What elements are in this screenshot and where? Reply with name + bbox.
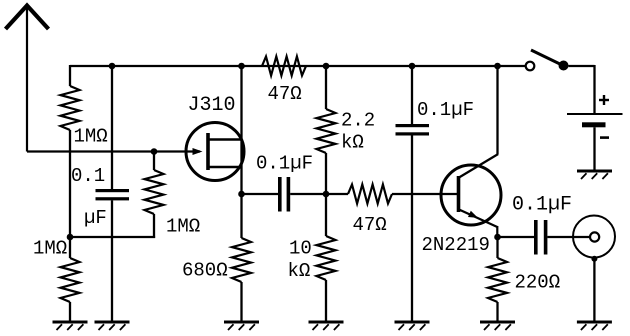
resistor R4 680 ohm [232,238,251,282]
wire R2 to ground [69,302,71,322]
resistor R9 220 ohm [488,258,507,302]
transistor Q2 2N2219 BJT [441,154,501,237]
svg-text:0.1µF: 0.1µF [417,99,474,121]
capacitor C2 0.1uF [278,177,290,212]
junction rail to collector [494,63,501,70]
node emitter junction [494,234,501,241]
svg-text:1MΩ: 1MΩ [74,126,108,148]
svg-text:220Ω: 220Ω [515,272,561,294]
wire rail to C1 [111,66,113,189]
wire top supply rail [70,65,526,67]
node connector shell junction [591,256,597,262]
wire connector shell to ground [593,259,595,322]
wire drain channel vertical [240,66,242,194]
svg-text:10: 10 [289,238,312,260]
wire rail to R5 [325,66,327,109]
ground below R6 [309,321,344,324]
wire R5 to node B [325,153,327,236]
label battery minus [600,136,609,139]
resistor R5 2.2k ohm [317,109,336,153]
wire C2 to node B [290,193,326,195]
junction rail to C1 [109,63,116,70]
ground below battery [577,170,612,173]
junction rail to drain [238,63,245,70]
svg-text:680Ω: 680Ω [182,260,228,282]
transistor Q1 J310 JFET [186,123,244,181]
wire C1 to ground [111,200,113,322]
svg-text:47Ω: 47Ω [268,83,302,105]
ground below connector [577,321,612,324]
ground below C3 [395,321,430,324]
wire R8 to base [392,193,457,195]
ground below R4 [224,321,259,324]
junction rail to R5 [323,63,330,70]
wire antenna to gate [27,150,200,152]
wire rail to C3 [411,66,413,124]
wire node B to R8 [326,193,348,195]
wire emitter to C4 [498,236,535,238]
ground below R2 [53,321,88,324]
node gate junction [151,148,158,155]
svg-text:2.2: 2.2 [341,110,375,132]
wire emitter to R9 [496,237,498,258]
battery BT1 [567,114,623,127]
wire C4 to connector [547,236,590,238]
capacitor C1 0.1uF [96,189,130,200]
junction rail to C3 [409,63,416,70]
capacitor C4 0.1uF [534,220,547,255]
ground below C1 [95,321,130,324]
wire source to C2 [242,193,279,195]
resistor R7 47 ohm [262,57,306,76]
svg-text:µF: µF [84,207,107,229]
node source junction [238,191,245,198]
svg-text:kΩ: kΩ [341,132,364,154]
wire switch to battery [568,65,594,67]
label battery plus [599,95,609,105]
node B junction [323,191,330,198]
antenna ANT1 [6,6,49,152]
svg-text:1MΩ: 1MΩ [33,238,67,260]
capacitor C3 0.1uF [396,124,430,136]
wire R9 to ground [496,302,498,322]
wire battery positive drop [593,65,595,114]
switch S1 [526,50,569,71]
svg-text:kΩ: kΩ [288,260,311,282]
resistor R1 1M ohm [61,86,80,130]
node A junction [67,234,74,241]
svg-text:0.1µF: 0.1µF [512,194,572,217]
resistor R2 1M ohm [61,258,80,302]
wire battery negative to ground [593,127,595,170]
svg-text:1MΩ: 1MΩ [166,216,200,238]
connector J1 output jack [573,216,615,258]
wire collector vertical [496,66,498,154]
wire C3 to ground [411,136,413,323]
svg-text:2N2219: 2N2219 [422,234,490,256]
resistor R3 1M ohm gate bias [153,152,155,171]
wire R1 bottom to node A [69,130,71,258]
wire rail corner to R1 [69,65,71,86]
wire source to R4 [240,194,242,238]
svg-text:0.1: 0.1 [71,165,105,187]
resistor R8 47 ohm [348,185,392,204]
ground below R9 [480,321,515,324]
wire R4 to ground [240,282,242,322]
svg-text:J310: J310 [188,94,236,117]
wire R6 to ground [325,280,327,322]
wire R3 bottom to node A [153,214,155,238]
svg-text:0.1µF: 0.1µF [256,153,313,175]
svg-text:47Ω: 47Ω [353,214,387,236]
resistor R6 10k ohm [317,236,336,280]
